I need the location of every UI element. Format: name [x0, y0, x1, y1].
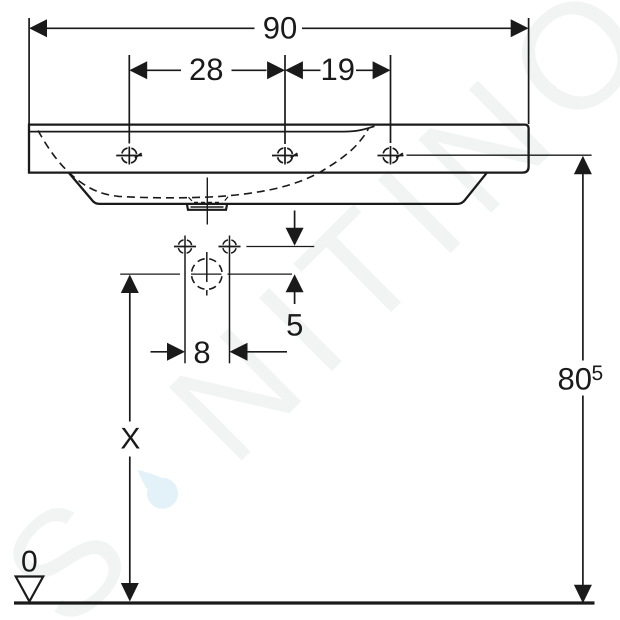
dashed basin interior curve [38, 128, 369, 198]
arrowhead 28 left [129, 61, 147, 79]
svg-text:5: 5 [286, 308, 303, 343]
svg-text:90: 90 [263, 11, 297, 46]
svg-text:5: 5 [591, 362, 603, 385]
arrowhead 80.5 bottom [574, 585, 592, 604]
tap hole middle circle [277, 148, 292, 163]
arrowhead 19 right [373, 61, 391, 79]
svg-text:19: 19 [321, 52, 355, 87]
arrowhead 8 left [167, 343, 185, 361]
dim 8 right tail [248, 351, 288, 353]
dim 8 extension line left [184, 236, 186, 364]
drain dashed diagonal right [223, 197, 229, 204]
dim 80.5 line [582, 174, 584, 585]
washbasin rim band outline [29, 125, 529, 173]
dim X line [129, 293, 131, 584]
watermark water drop [147, 478, 178, 509]
dim 5 upper tail [294, 211, 296, 229]
dim 90 extension line left [28, 18, 30, 124]
dim 90 extension line right [528, 18, 530, 124]
reference line y246 [246, 246, 314, 248]
arrowhead 90 left [29, 19, 47, 37]
arrowhead 8 right [230, 343, 248, 361]
drain hidden dashed edge [194, 201, 221, 203]
mounting hole right circle [223, 240, 237, 254]
washbasin bowl underside outline [69, 173, 487, 204]
drain centerline [206, 178, 208, 225]
tap hole left circle [122, 148, 137, 163]
tap hole left cross [116, 153, 142, 158]
reference centerline y274 [120, 273, 292, 275]
mounting hole left circle [178, 240, 192, 254]
dim 28-19 line [146, 69, 373, 71]
datum triangle [16, 577, 44, 602]
siphon dashed circle [192, 259, 223, 290]
tap hole right circle [383, 148, 398, 163]
dim row2 extension line x390 [390, 55, 392, 165]
dim 90 line [46, 27, 512, 29]
tap hole right cross [378, 153, 404, 158]
svg-text:X: X [120, 423, 140, 456]
ground line [14, 601, 595, 604]
dim 8 left tail [151, 351, 168, 353]
siphon circle vertical centerline [206, 252, 208, 296]
arrowhead 19 left [285, 61, 303, 79]
svg-text:28: 28 [189, 52, 223, 87]
dim 5 lower tail [294, 292, 296, 305]
washbasin inner rim edge line [29, 126, 375, 131]
tap hole middle cross [272, 153, 298, 158]
mounting hole right cross [219, 246, 241, 248]
dim row2 extension line x129 [128, 55, 130, 165]
arrowhead 28 right [267, 61, 285, 79]
drain dashed diagonal left [189, 197, 195, 203]
svg-text:8: 8 [193, 335, 210, 370]
arrowhead X bottom [121, 583, 139, 602]
arrowhead 80.5 top [574, 156, 592, 175]
dim row2 extension line x285 [284, 55, 286, 165]
svg-text:80: 80 [558, 362, 592, 397]
arrowhead 90 right [511, 19, 529, 37]
drain outlet bracket [187, 205, 227, 210]
svg-text:0: 0 [21, 545, 38, 578]
drain inner line [191, 206, 224, 208]
arrowhead 5 up [286, 274, 304, 292]
mounting hole left cross [174, 246, 196, 248]
reference line from right tap hole [407, 154, 592, 156]
dim 8 extension line right [229, 236, 231, 364]
arrowhead 5 down [286, 228, 304, 246]
arrowhead X top [121, 275, 139, 294]
